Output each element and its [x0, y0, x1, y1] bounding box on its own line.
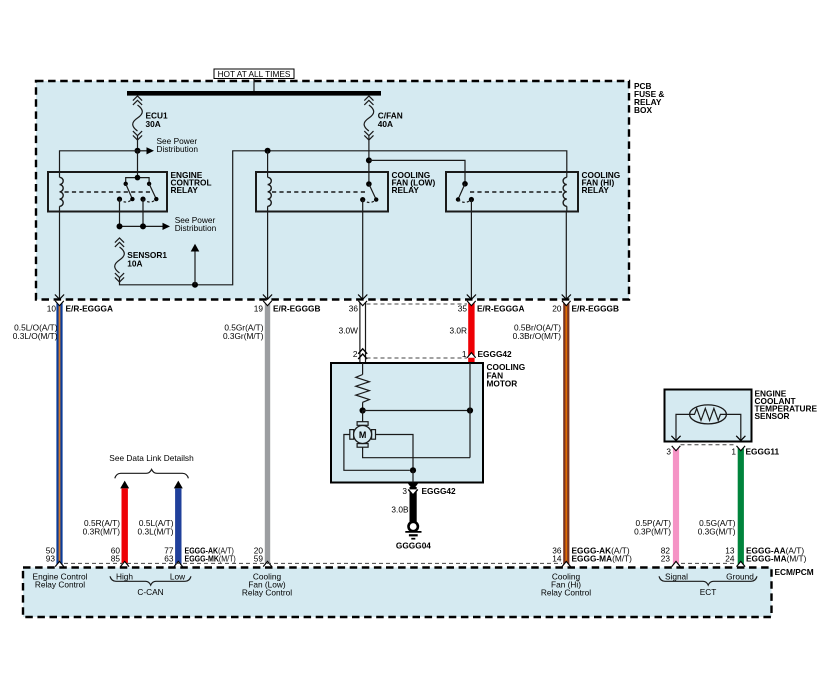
wire gray E/R-EGGGB 19	[223, 301, 272, 567]
svg-text:See Data Link Detailsh: See Data Link Detailsh	[109, 453, 194, 463]
svg-text:0.3L(M/T): 0.3L(M/T)	[138, 527, 174, 537]
svg-text:EGGG42: EGGG42	[478, 349, 513, 359]
svg-text:0.3P(M/T): 0.3P(M/T)	[634, 527, 671, 537]
thermistor element	[690, 405, 727, 424]
svg-text:0.3G(M/T): 0.3G(M/T)	[698, 527, 736, 537]
pin 50/93 label	[46, 546, 56, 564]
wire red 3.0R pin 35	[449, 301, 475, 363]
relay K3 switch	[456, 181, 474, 202]
relay K3 mechanical link	[470, 191, 562, 193]
wire relay K2 coil down	[267, 212, 269, 300]
relay K2 switch	[360, 181, 378, 202]
svg-text:E/R-EGGGB: E/R-EGGGB	[273, 304, 320, 314]
wire relay K2 output	[362, 200, 364, 300]
svg-text:HOT AT ALL TIMES: HOT AT ALL TIMES	[218, 69, 291, 79]
svg-text:3.0W: 3.0W	[339, 325, 359, 335]
pin 60/85 label	[111, 546, 121, 564]
node low relay coil feed	[265, 148, 271, 172]
connector EGGG42 top row	[353, 349, 512, 359]
svg-text:ECT: ECT	[700, 587, 717, 597]
pin 19 exit arrow	[254, 295, 321, 314]
wire C-CAN high (red)	[83, 481, 130, 567]
ECM C-CAN labels	[110, 571, 191, 597]
fuse C/FAN 40A	[364, 96, 403, 184]
cooling fan motor box	[331, 362, 525, 483]
relay K3 cooling fan hi relay	[446, 170, 620, 211]
relay K2 mechanical link	[272, 191, 366, 193]
connector EGGG11 row	[666, 445, 779, 457]
wire C-CAN low (blue)	[138, 481, 183, 567]
wire ECT pin3 lead	[671, 414, 689, 440]
relay K1 coil	[60, 172, 64, 212]
pin 20 exit arrow	[552, 295, 619, 314]
svg-text:C-CAN: C-CAN	[137, 587, 163, 597]
svg-text:3: 3	[666, 447, 671, 457]
wire motor top lead	[362, 411, 364, 423]
svg-text:EGGG42: EGGG42	[422, 486, 457, 496]
svg-text:14: 14	[552, 554, 562, 564]
ECM cooling fan hi label	[541, 571, 591, 597]
wire relay K3 output	[470, 200, 472, 300]
pin 10 exit arrow	[47, 295, 113, 314]
svg-text:ECM/PCM: ECM/PCM	[775, 567, 814, 577]
wire white 3.0W pin 36	[339, 301, 368, 362]
svg-text:Ground: Ground	[726, 571, 754, 581]
svg-text:EGGG-MK(M/T): EGGG-MK(M/T)	[185, 554, 237, 564]
node see power distribution 1	[135, 136, 199, 155]
svg-text:E/R-EGGGA: E/R-EGGGA	[66, 304, 113, 314]
svg-text:0.3Gr(M/T): 0.3Gr(M/T)	[223, 331, 264, 341]
pin 35 exit arrow	[458, 295, 525, 314]
svg-text:63: 63	[164, 554, 174, 564]
svg-text:High: High	[116, 571, 133, 581]
wire blue/orange E/R-EGGGA 10	[13, 301, 64, 567]
svg-text:E/R-EGGGB: E/R-EGGGB	[572, 304, 619, 314]
svg-text:Signal: Signal	[665, 571, 688, 581]
svg-text:GGGG04: GGGG04	[396, 541, 431, 551]
pin 36/14 label	[552, 546, 562, 564]
pin 3 EGGG42 exit	[391, 483, 456, 522]
wire motor bottom to pin1 net	[363, 447, 470, 458]
relay K1 switch contacts	[117, 175, 159, 202]
ground GGGG04	[396, 522, 431, 551]
node motor ground junction	[410, 467, 416, 482]
svg-text:BOX: BOX	[634, 105, 652, 115]
svg-text:2: 2	[353, 349, 358, 359]
pin 20/59 label	[254, 546, 264, 564]
svg-text:MOTOR: MOTOR	[487, 379, 518, 389]
connector EGGG-AK/MA labels	[572, 546, 633, 564]
svg-text:Relay Control: Relay Control	[35, 579, 85, 589]
relay K2 cooling fan low relay	[256, 170, 436, 211]
svg-text:93: 93	[46, 554, 56, 564]
svg-text:Low: Low	[170, 571, 186, 581]
wire fuse to relay K1 common	[137, 151, 139, 178]
svg-text:20: 20	[552, 304, 562, 314]
relay K2 coil	[268, 172, 272, 212]
wire engine relay coil down	[59, 212, 61, 300]
wire relay K1 outputs down	[119, 199, 121, 226]
C-CAN data link note	[109, 453, 194, 479]
power bus bar	[127, 91, 381, 96]
resistor fan dropping resistor	[356, 363, 370, 411]
svg-text:10A: 10A	[127, 258, 142, 268]
svg-text:RELAY: RELAY	[171, 185, 199, 195]
pin 82/23 label	[661, 546, 671, 564]
svg-text:M: M	[359, 430, 367, 440]
svg-text:59: 59	[254, 554, 264, 564]
ECM engine control relay control label	[33, 571, 88, 589]
svg-text:0.3Br/O(M/T): 0.3Br/O(M/T)	[513, 331, 562, 341]
node up-arrow branch	[191, 244, 200, 288]
svg-text:EGGG-MA(M/T): EGGG-MA(M/T)	[746, 554, 807, 564]
svg-text:3.0B: 3.0B	[391, 504, 409, 514]
svg-text:0.3L/O(M/T): 0.3L/O(M/T)	[13, 331, 58, 341]
wire green ECT ground	[698, 446, 745, 567]
wire pin1 feed inside motor box	[469, 363, 471, 458]
relay K1 mechanical link	[65, 191, 151, 193]
fuse SENSOR1 10A	[115, 238, 168, 282]
node see power distribution 2	[117, 215, 217, 233]
svg-text:3: 3	[402, 486, 407, 496]
svg-text:EGGG11: EGGG11	[746, 447, 780, 457]
relay K1 engine control relay	[48, 170, 212, 211]
node HOT AT ALL TIMES	[214, 69, 294, 91]
ECM ECT labels	[659, 571, 757, 597]
svg-text:85: 85	[111, 554, 121, 564]
wire to engine control relay coil	[60, 151, 138, 172]
ECT sensor box	[665, 388, 818, 441]
connector EGGG-AK/MK labels	[185, 546, 237, 564]
svg-text:24: 24	[725, 554, 735, 564]
pin 36 exit arrow	[349, 295, 368, 314]
svg-text:1: 1	[731, 447, 736, 457]
connector dashed link pins 36-35	[367, 303, 468, 305]
svg-text:Relay Control: Relay Control	[242, 587, 292, 597]
node C/FAN fuse junction	[366, 157, 465, 183]
ECM cooling fan low label	[242, 571, 292, 597]
svg-text:35: 35	[458, 304, 468, 314]
wire pink ECT signal	[634, 446, 680, 567]
connector EGGG-AA/MA labels	[746, 546, 807, 564]
PCB fuse &amp; relay box	[36, 81, 664, 300]
relay K3 coil	[563, 172, 567, 212]
wire ECT pin1 lead	[726, 414, 745, 440]
svg-text:0.3R(M/T): 0.3R(M/T)	[83, 527, 121, 537]
svg-text:RELAY: RELAY	[582, 185, 610, 195]
pin 77/63 label	[164, 546, 174, 564]
wire motor left brush loop	[344, 435, 410, 471]
svg-text:Distribution: Distribution	[157, 144, 199, 154]
svg-text:EGGG-MA(M/T): EGGG-MA(M/T)	[572, 554, 633, 564]
svg-text:Distribution: Distribution	[175, 223, 217, 233]
ECM/PCM box	[23, 567, 814, 617]
svg-text:RELAY: RELAY	[392, 185, 420, 195]
node motor top junction	[360, 407, 474, 413]
svg-text:40A: 40A	[378, 119, 393, 129]
svg-text:E/R-EGGGA: E/R-EGGGA	[477, 304, 524, 314]
wire brown/orange E/R-EGGGB 20	[513, 301, 571, 567]
pin 13/24 label	[725, 546, 735, 564]
connector dashed link ECM row left	[64, 562, 562, 564]
svg-text:SENSOR: SENSOR	[755, 411, 790, 421]
connector dashed link ECM row right	[681, 562, 736, 564]
svg-text:10: 10	[47, 304, 57, 314]
svg-text:30A: 30A	[146, 119, 161, 129]
svg-text:Relay Control: Relay Control	[541, 587, 591, 597]
wire motor right brush	[376, 435, 414, 471]
svg-text:36: 36	[349, 304, 359, 314]
svg-text:23: 23	[661, 554, 671, 564]
svg-text:3.0R: 3.0R	[449, 325, 467, 335]
svg-text:19: 19	[254, 304, 264, 314]
fuse ECU1 30A	[133, 96, 168, 151]
wire sensor1 to bus A	[120, 151, 567, 285]
motor M1 fan motor	[350, 422, 376, 448]
wire relay K3 coil down	[565, 212, 567, 300]
